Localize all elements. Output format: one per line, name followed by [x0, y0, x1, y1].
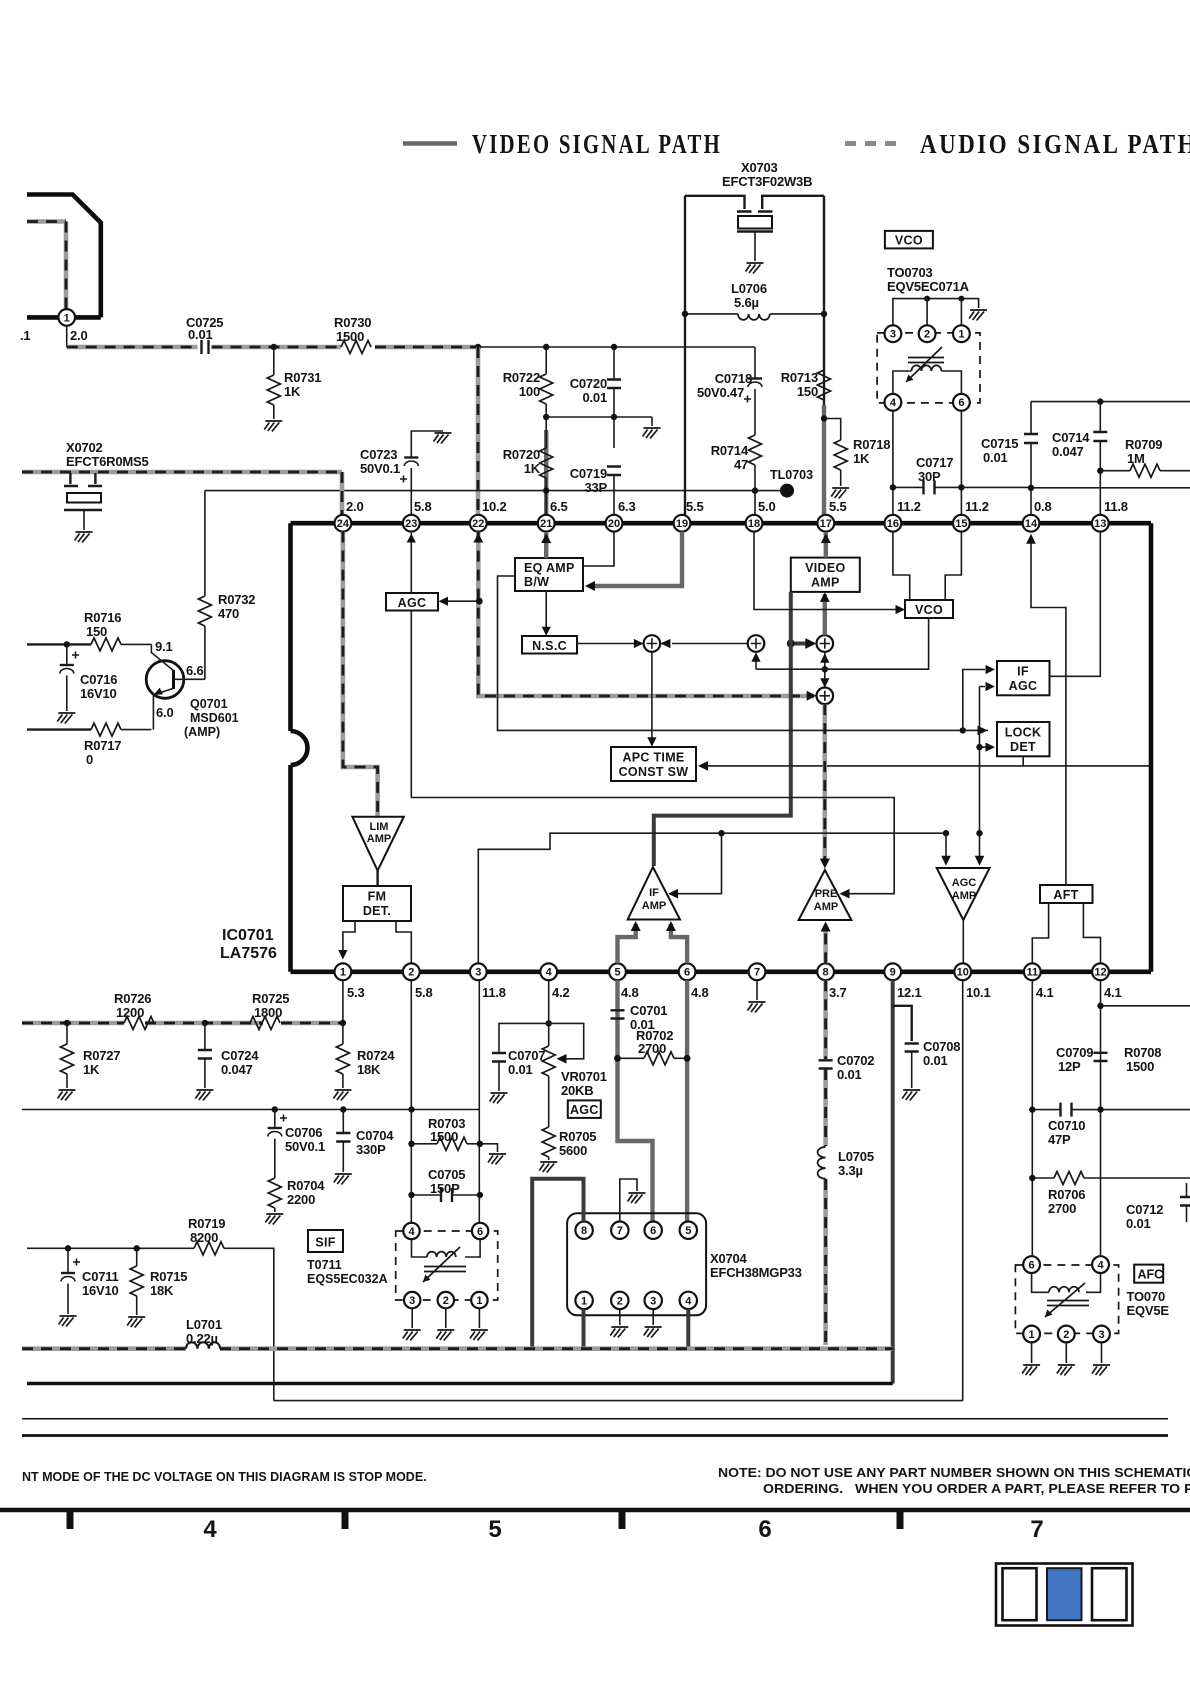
pin 10 [954, 963, 971, 980]
svg-text:T0711: T0711 [307, 1258, 342, 1272]
wire AGC AMP output to pin 10 [962, 920, 964, 963]
wire pin11 riser down to TO0702 pin 6 [1031, 980, 1033, 1256]
tuner box corner (top-left) [27, 195, 101, 318]
svg-text:AMP: AMP [811, 576, 840, 590]
wire APC feed from IC right edge [700, 765, 1151, 767]
ground (C0724) [195, 1090, 213, 1101]
svg-text:3: 3 [1098, 1329, 1104, 1341]
svg-text:11.2: 11.2 [965, 499, 989, 514]
svg-text:12P: 12P [1058, 1059, 1081, 1074]
svg-text:PRE: PRE [815, 888, 838, 900]
svg-text:23: 23 [405, 518, 417, 530]
svg-text:0: 0 [86, 752, 93, 767]
video path heavy elbow to IF AMP [654, 592, 791, 866]
wire adder1 down to APC block [651, 652, 653, 745]
svg-text:11.2: 11.2 [897, 499, 921, 514]
svg-text:C0719: C0719 [570, 466, 607, 481]
svg-text:6: 6 [958, 397, 964, 409]
svg-text:5: 5 [488, 1516, 501, 1543]
resistor R0717 [91, 723, 121, 736]
wire AFT down to pins 11 and 12 [1032, 903, 1048, 963]
svg-text:MSD601: MSD601 [190, 711, 239, 725]
grounds (TO0702 pins 1,2,3) [1032, 1342, 1102, 1363]
capacitor C0710 [1032, 1109, 1190, 1111]
transistor Q0701 MSD601 [146, 661, 184, 699]
capacitor C0724 [198, 1023, 212, 1088]
LOCK DET block [997, 722, 1050, 756]
svg-text:R0714: R0714 [711, 443, 749, 458]
adder 4 [817, 688, 834, 705]
svg-text:1K: 1K [83, 1062, 100, 1077]
pin 9 heavy riser [891, 980, 895, 1383]
wire (base feed line y=644.4) [27, 643, 91, 645]
svg-text:6: 6 [650, 1225, 656, 1237]
wire IF AMP feedback [670, 833, 722, 894]
svg-text:4: 4 [546, 967, 553, 979]
svg-text:22: 22 [472, 518, 484, 530]
audio dashed path pin22 down and across to adder 4 [478, 532, 814, 696]
svg-text:5.5: 5.5 [829, 499, 846, 514]
svg-text:4: 4 [685, 1295, 692, 1307]
node (y347 C0720 column) [611, 344, 617, 350]
svg-text:VCO: VCO [895, 234, 923, 248]
svg-text:0.8: 0.8 [1034, 499, 1051, 514]
X0702 body [70, 473, 95, 484]
svg-text:C0724: C0724 [221, 1048, 259, 1063]
svg-text:Q0701: Q0701 [190, 697, 228, 711]
wire LOCK DET output stub to APC line [1022, 756, 1024, 766]
node (1100,470.7) [1097, 468, 1103, 474]
svg-text:R0718: R0718 [853, 437, 890, 452]
audio dashed pin8 up into PRE AMP [823, 925, 828, 963]
SIF label box [308, 1230, 343, 1252]
svg-text:7: 7 [617, 1225, 623, 1237]
wire IF AGC output to pin 13 [1050, 532, 1101, 677]
wire rail y=1109.5 from edge to pin 3 riser [22, 1109, 479, 1111]
svg-text:1: 1 [64, 312, 70, 324]
svg-text:2: 2 [617, 1295, 623, 1307]
svg-text:C0712: C0712 [1126, 1202, 1163, 1217]
svg-text:AMP: AMP [642, 900, 666, 912]
X0703 outline left / pin 19 column [684, 196, 686, 523]
svg-text:B/W: B/W [524, 575, 549, 589]
svg-text:11.8: 11.8 [1104, 499, 1128, 514]
AFT block [1040, 885, 1093, 903]
svg-text:C0702: C0702 [837, 1053, 874, 1068]
capacitor C0725 [202, 340, 209, 354]
svg-text:20KB: 20KB [561, 1083, 593, 1098]
wire (audio dashed line y=347) [67, 345, 478, 350]
svg-text:TO070: TO070 [1127, 1289, 1166, 1304]
svg-text:5: 5 [614, 967, 620, 979]
pin 12 [1092, 963, 1109, 980]
T0711 pin 6 [472, 1223, 488, 1239]
svg-text:R0716: R0716 [84, 610, 121, 625]
wire EQ AMP down to NSC [545, 591, 547, 634]
capacitor C0719 [607, 467, 621, 476]
wire pin1 riser to rail [342, 980, 344, 1023]
EQ AMP B/W block [515, 558, 583, 591]
svg-text:1500: 1500 [430, 1129, 458, 1144]
X0704 pin 7 ground hook [620, 1179, 637, 1222]
heavy line y=1383.5 [27, 1382, 893, 1385]
T0711 variable coil [412, 1239, 481, 1257]
wire (dashed audio riser into pin 24) [340, 472, 345, 518]
svg-text:3: 3 [409, 1295, 415, 1307]
svg-text:DET.: DET. [363, 904, 391, 918]
svg-text:21: 21 [540, 518, 552, 530]
svg-text:TO0703: TO0703 [887, 265, 933, 280]
ruler tick 4 [897, 1508, 904, 1529]
svg-text:R0715: R0715 [150, 1269, 187, 1284]
svg-text:C0716: C0716 [80, 672, 117, 687]
wire (top rail y=401.6 right area) [1031, 401, 1190, 403]
svg-text:0.01: 0.01 [983, 450, 1008, 465]
svg-text:1800: 1800 [254, 1005, 282, 1020]
svg-text:R0724: R0724 [357, 1048, 395, 1063]
wire y=1006 rail to page edge [1101, 1005, 1190, 1007]
node (614,417) [611, 414, 617, 420]
svg-text:AFC: AFC [1138, 1268, 1164, 1282]
svg-text:3: 3 [650, 1295, 656, 1307]
svg-text:18: 18 [748, 518, 760, 530]
X0704 pin 1 [575, 1292, 592, 1309]
pin 18 [746, 515, 763, 532]
potentiometer VR0701 20KB [548, 1023, 550, 1046]
wire AGC AMP left input [945, 833, 947, 857]
wire (pin1 down to audio line) [66, 326, 68, 347]
video path overlay on pin 17 column [822, 405, 826, 520]
svg-text:6: 6 [477, 1226, 483, 1238]
svg-text:13: 13 [1094, 518, 1106, 530]
node (y347 at x478) [475, 344, 481, 350]
wire (emitter line y=729.6) [27, 728, 91, 730]
ground (C0711) [59, 1316, 77, 1327]
svg-text:150P: 150P [430, 1181, 460, 1196]
pin 20 [606, 515, 623, 532]
node (893,487.4) [890, 484, 896, 490]
X0704 pin 5 [680, 1222, 697, 1239]
svg-text:R0732: R0732 [218, 592, 255, 607]
svg-text:CONST SW: CONST SW [619, 765, 689, 779]
svg-text:0.01: 0.01 [923, 1053, 948, 1068]
capacitor C0705 [412, 1194, 480, 1196]
pin 4 [540, 963, 557, 980]
wire long line y=730.4 from EQ AMP loop to LOCK DET [498, 576, 989, 730]
wire riser to IF AGC upper input [963, 670, 985, 731]
TO0703 pin 4 [885, 394, 902, 411]
ground (C0708) [902, 1090, 920, 1101]
svg-text:5: 5 [685, 1225, 691, 1237]
svg-text:1K: 1K [853, 451, 870, 466]
svg-text:4: 4 [408, 1226, 415, 1238]
svg-text:C0715: C0715 [981, 436, 1018, 451]
wire AFT up to pin 14 [1031, 536, 1066, 885]
PRE AMP triangle [799, 870, 852, 920]
pin 5 [609, 963, 626, 980]
svg-text:2200: 2200 [287, 1192, 315, 1207]
IF AMP triangle [628, 867, 680, 920]
svg-text:4.2: 4.2 [552, 985, 569, 1000]
svg-text:IF: IF [1017, 665, 1029, 679]
ruler tick 2 [342, 1508, 349, 1529]
video path pin5/pin6 into IF AMP [618, 924, 636, 963]
node (1100.5,1006) [1097, 1003, 1103, 1009]
ground (R0703) [488, 1154, 506, 1165]
svg-text:470: 470 [218, 606, 239, 621]
svg-text:10.1: 10.1 [966, 985, 991, 1000]
svg-text:0.01: 0.01 [188, 327, 213, 342]
svg-text:SIF: SIF [315, 1236, 335, 1250]
svg-text:R0725: R0725 [252, 991, 289, 1006]
svg-text:2: 2 [443, 1295, 449, 1307]
X0703 top outline with pin hooks [685, 196, 824, 209]
wire pin3 riser down to T0711 pin 6 [478, 980, 480, 1222]
svg-text:10.2: 10.2 [482, 499, 507, 514]
svg-text:VIDEO: VIDEO [805, 561, 845, 575]
ruler tick 3 [619, 1508, 626, 1529]
svg-text:R0726: R0726 [114, 991, 151, 1006]
svg-text:EFCH38MGP33: EFCH38MGP33 [710, 1265, 802, 1280]
wire pin20 to EQ AMP right [584, 532, 615, 566]
wire FM DET to pin2 [396, 921, 411, 963]
svg-text:50V0.1: 50V0.1 [360, 461, 400, 476]
svg-text:C0705: C0705 [428, 1167, 465, 1182]
video path X0704 pin1 down [532, 1309, 583, 1349]
svg-text:8200: 8200 [190, 1230, 218, 1245]
pin 11 [1024, 963, 1041, 980]
wire (dashed audio riser into pin 22) [476, 347, 481, 518]
audio dashed bottom line y=1348.7 [22, 1346, 893, 1351]
svg-text:IC0701: IC0701 [222, 927, 274, 944]
wire pin4 riser with VR0701 node [548, 980, 550, 1023]
pin 1 [335, 963, 352, 980]
TO0703 pin 2 [919, 325, 936, 342]
video path overlay on pin 21 riser [544, 430, 548, 520]
svg-text:EQV5EC071A: EQV5EC071A [887, 279, 970, 294]
adder 3 [817, 635, 834, 652]
TO0703 variable coil [893, 371, 962, 394]
svg-text:15: 15 [955, 518, 967, 530]
svg-text:TL0703: TL0703 [770, 468, 813, 482]
wire R0719 rail [27, 1247, 194, 1249]
svg-text:C0717: C0717 [916, 455, 953, 470]
resistor R0732 [204, 491, 206, 596]
svg-text:50V0.47: 50V0.47 [697, 385, 744, 400]
svg-text:24: 24 [337, 518, 350, 530]
AGC block [386, 593, 438, 611]
resistor R0714 [749, 435, 762, 465]
wire pin10 riser [962, 980, 964, 1400]
svg-text:R0713: R0713 [781, 370, 818, 385]
pin 8 [817, 963, 834, 980]
svg-text:4.8: 4.8 [621, 985, 638, 1000]
X0704 pin 8 [575, 1222, 592, 1239]
capacitor C0708 [893, 1006, 912, 1041]
ground (C0707) [490, 1093, 508, 1104]
svg-text:C0711: C0711 [82, 1269, 119, 1284]
svg-text:R0717: R0717 [84, 738, 121, 753]
pin 9 [884, 963, 901, 980]
TO0703 pin 1 [953, 325, 970, 342]
svg-text:L0706: L0706 [731, 281, 767, 296]
node (y347 R0722 column) [543, 344, 549, 350]
T0711 pin 2 [438, 1292, 454, 1308]
svg-text:R0722: R0722 [503, 370, 540, 385]
svg-text:C0709: C0709 [1056, 1045, 1093, 1060]
svg-text:16: 16 [887, 518, 899, 530]
svg-text:3: 3 [475, 967, 481, 979]
pin 2 [403, 963, 420, 980]
svg-text:18K: 18K [150, 1283, 174, 1298]
wire (dashed audio into connector pin 1) [27, 222, 66, 310]
svg-text:0.01: 0.01 [1126, 1216, 1151, 1231]
node (68,1248.3) [65, 1245, 71, 1251]
svg-text:12.1: 12.1 [897, 985, 922, 1000]
svg-text:16V10: 16V10 [82, 1283, 119, 1298]
wire AGC filter net from pin 3 [478, 833, 946, 963]
svg-text:2700: 2700 [638, 1041, 666, 1056]
ground (R0724) [333, 1090, 351, 1101]
ground (C0716) [57, 713, 75, 724]
TO0702 variable coil [1032, 1273, 1101, 1292]
node (274.8,1109.5) [272, 1106, 278, 1112]
svg-text:R0720: R0720 [503, 447, 540, 462]
node (L0706 right) [821, 311, 827, 317]
svg-text:N.S.C: N.S.C [532, 639, 567, 653]
svg-text:L0701: L0701 [186, 1317, 222, 1332]
svg-text:150: 150 [86, 624, 107, 639]
X0703 outline right / pin 17 column [823, 196, 825, 523]
svg-text:EQ AMP: EQ AMP [524, 561, 575, 575]
svg-text:6.0: 6.0 [156, 705, 173, 720]
wire NSC to adder1 [577, 643, 642, 645]
svg-text:AGC: AGC [570, 1103, 599, 1117]
svg-text:X0704: X0704 [710, 1251, 748, 1266]
svg-text:C0701: C0701 [630, 1003, 667, 1018]
svg-text:1: 1 [958, 329, 964, 341]
ground (R0705) [539, 1162, 557, 1173]
TO0702 pin 6 [1023, 1256, 1040, 1273]
ground (X0702) [75, 532, 93, 543]
resistor R0716 [91, 638, 121, 651]
capacitor C0701 [611, 1010, 625, 1018]
svg-text:47P: 47P [1048, 1132, 1071, 1147]
svg-text:2: 2 [924, 329, 930, 341]
svg-text:2: 2 [1063, 1329, 1069, 1341]
resistor R0719 [194, 1242, 224, 1255]
wire (thin line y=490.6 from R0732 corner to pin18 column) [205, 490, 755, 492]
svg-text:AMP: AMP [952, 890, 976, 902]
IC0701 LA7576 body [288, 523, 293, 972]
X0703 resonator body [737, 210, 773, 212]
svg-text:R0719: R0719 [188, 1216, 225, 1231]
svg-text:4.1: 4.1 [1104, 985, 1121, 1000]
svg-text:1: 1 [476, 1295, 482, 1307]
pin 19 [674, 515, 691, 532]
svg-text:10: 10 [957, 967, 969, 979]
audio dashed pin8 column [823, 980, 828, 1345]
svg-text:2.0: 2.0 [346, 499, 363, 514]
svg-text:6.5: 6.5 [550, 499, 567, 514]
inductor L0705 [818, 1147, 826, 1179]
svg-text:EQV5E: EQV5E [1127, 1303, 1170, 1318]
resistor R0705 [542, 1127, 555, 1157]
svg-text:5.6µ: 5.6µ [734, 295, 759, 310]
svg-text:1K: 1K [524, 461, 541, 476]
ground (R0715) [127, 1317, 145, 1328]
svg-text:20: 20 [608, 518, 620, 530]
node (411.5,1109.5) [408, 1106, 414, 1112]
svg-text:5600: 5600 [559, 1143, 587, 1158]
ground (C0704) [334, 1174, 352, 1185]
video path pin19 into EQ AMP [589, 532, 682, 586]
node (L0706 left) [682, 311, 688, 317]
legend: audio signal path dashed swatch [845, 141, 901, 146]
svg-text:6: 6 [1029, 1260, 1035, 1272]
svg-text:DET: DET [1010, 740, 1036, 754]
svg-text:R0730: R0730 [334, 315, 371, 330]
svg-text:100: 100 [519, 384, 540, 399]
VCO label box [885, 231, 933, 249]
wire (TO0703 pin6 down to pin 15) [960, 411, 962, 523]
resistor R0725 [250, 1017, 280, 1030]
TO0702 pin 2 [1058, 1326, 1075, 1343]
svg-text:LIM: LIM [370, 821, 389, 833]
TO0702 pin 4 [1092, 1256, 1109, 1273]
svg-text:0.22µ: 0.22µ [186, 1331, 218, 1346]
wire pin7 ground [756, 980, 758, 1000]
pin 14 [1023, 515, 1040, 532]
resistor R0720 [545, 404, 547, 448]
TO0702 pin 3 [1093, 1326, 1110, 1343]
pin 15 [953, 515, 970, 532]
svg-text:12: 12 [1094, 967, 1106, 979]
capacitor C0709 [1094, 1053, 1108, 1061]
svg-text:5.5: 5.5 [686, 499, 703, 514]
svg-text:4.8: 4.8 [691, 985, 708, 1000]
AGC label box [568, 1100, 601, 1118]
bottom border thick line [22, 1434, 1168, 1437]
VCO block [905, 600, 953, 618]
ground (C0720/R0720 junction) [643, 428, 661, 439]
svg-text:330P: 330P [356, 1142, 386, 1157]
svg-text:5.8: 5.8 [414, 499, 431, 514]
svg-text:C0723: C0723 [360, 447, 397, 462]
svg-text:8: 8 [823, 967, 829, 979]
node (1100,401.6) [1097, 398, 1103, 404]
svg-text:14: 14 [1025, 518, 1038, 530]
wire adder2 to adder1 [672, 643, 748, 645]
wire (rail y=487.8 to page edge) [961, 486, 1190, 488]
svg-text:3: 3 [890, 329, 896, 341]
capacitor C0704 [336, 1110, 350, 1173]
svg-text:6: 6 [684, 967, 690, 979]
bottom border thin line [22, 1418, 1168, 1420]
svg-text:16V10: 16V10 [80, 686, 117, 701]
capacitor C0707 [499, 1023, 549, 1091]
resistor R0730 [341, 341, 371, 354]
ground (X0703) [746, 263, 764, 274]
svg-text:1: 1 [340, 967, 346, 979]
node 1 (tuner connector pin) [58, 309, 75, 326]
svg-text:C0714: C0714 [1052, 430, 1090, 445]
wire vertical chain x=979.5 (IF AGC low / LOCK DET low / AGC AMP) [980, 687, 986, 858]
wire AGC up to pin 23 [410, 533, 412, 593]
svg-text:1200: 1200 [116, 1005, 144, 1020]
VIDEO AMP block [791, 558, 860, 592]
svg-text:R0727: R0727 [83, 1048, 120, 1063]
